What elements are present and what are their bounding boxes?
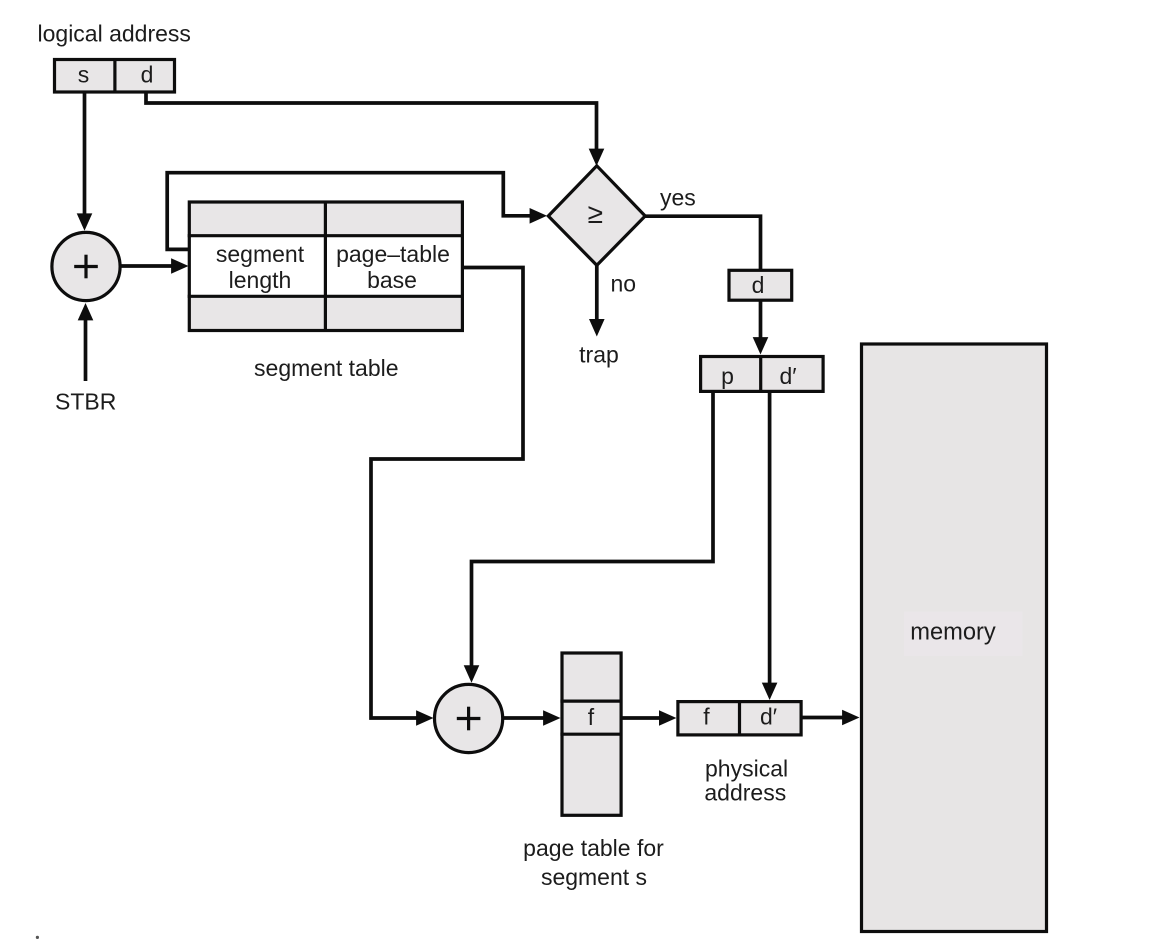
wire d' to physical address register [762, 391, 778, 700]
svg-text:f: f [703, 704, 710, 730]
svg-text:STBR: STBR [55, 389, 116, 415]
wire register d to register p|d' [753, 300, 769, 355]
wire yes from comparator to register d [645, 216, 760, 270]
svg-text:d′: d′ [760, 704, 777, 730]
register s|d (logical address register) [55, 58, 175, 92]
svg-text:physical: physical [705, 756, 788, 782]
register d [729, 270, 792, 300]
svg-text:page–table: page–table [336, 241, 450, 267]
svg-text:no: no [611, 271, 637, 297]
svg-text:d: d [141, 61, 154, 87]
physical address register f|d' [678, 702, 801, 735]
svg-text:base: base [367, 267, 417, 293]
adder A2 (+) [435, 684, 503, 752]
wire adder A1 to segment table [121, 258, 189, 274]
segment table [188, 202, 464, 331]
wire no to trap [589, 265, 605, 336]
svg-text:s: s [78, 61, 90, 87]
wire physical address to memory [801, 710, 860, 726]
register p|d' [701, 357, 824, 392]
page table for segment s [560, 653, 621, 815]
svg-text:segment table: segment table [254, 355, 398, 381]
comparator diamond (>=) [548, 166, 645, 265]
svg-text:d: d [752, 272, 765, 298]
wire STBR to adder A1 [78, 303, 94, 381]
svg-text:page table for: page table for [523, 835, 664, 861]
wire adder A2 to page table [503, 710, 561, 726]
svg-text:logical address: logical address [38, 21, 191, 47]
svg-text:p: p [721, 363, 734, 389]
wire page table f to physical address register [621, 710, 676, 726]
svg-text:yes: yes [660, 184, 696, 210]
adder A1 (+) [52, 232, 120, 300]
memory block [862, 344, 1047, 932]
svg-text:memory: memory [910, 620, 996, 646]
svg-text:length: length [229, 267, 292, 293]
wire segment length to comparator (loop) [167, 173, 547, 250]
wire s to adder A1 [77, 92, 93, 231]
svg-text:address: address [704, 780, 786, 806]
svg-text:f: f [588, 704, 595, 730]
wire page-table base to adder A2 [371, 268, 523, 726]
svg-text:≥: ≥ [588, 198, 603, 229]
svg-text:d′: d′ [779, 363, 796, 389]
svg-text:trap: trap [579, 341, 619, 367]
wire d to comparator [146, 92, 604, 167]
svg-text:segment s: segment s [541, 864, 647, 890]
wire p to adder A2 [464, 391, 713, 682]
stray dot [36, 936, 39, 939]
svg-text:segment: segment [216, 241, 305, 267]
